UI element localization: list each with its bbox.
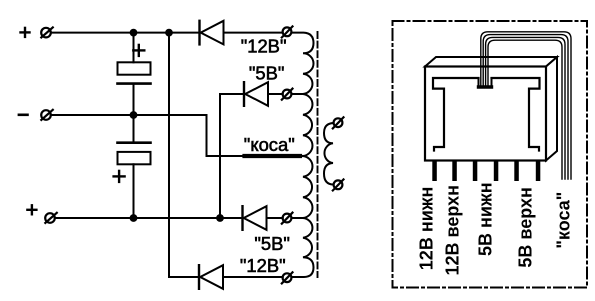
- transformer body front face: [425, 67, 546, 161]
- terminal primary top: [334, 118, 343, 127]
- pin 2: [452, 161, 457, 182]
- label plus bottom-left: [27, 205, 36, 214]
- svg-text:"5В": "5В": [254, 233, 290, 254]
- transformer body right face: [546, 57, 557, 161]
- terminal XS2 (-): [41, 110, 51, 120]
- wire VD2 cathode to 5V bus: [220, 93, 244, 95]
- transformer body top face: [425, 57, 557, 67]
- svg-text:"12В": "12В": [240, 255, 286, 276]
- wire VD2 anode to terminal: [268, 93, 283, 95]
- terminal primary bottom: [334, 180, 343, 189]
- svg-text:5В верхн: 5В верхн: [515, 187, 535, 268]
- terminal "5V" bottom: [283, 214, 292, 223]
- braid wire 4: [488, 40, 562, 179]
- diode VD1 "12V" top: [198, 21, 200, 45]
- wire cap C2 top lead: [133, 115, 135, 143]
- transformer T1 secondary winding: [292, 33, 314, 277]
- junction dot cap2/bottom rail: [130, 214, 138, 222]
- wire bottom rail: [55, 217, 243, 219]
- svg-text:"12В": "12В": [241, 36, 287, 57]
- wire 12V bus to VD4: [169, 276, 199, 278]
- wire top rail: [51, 32, 200, 34]
- diode VD4 "12V" bottom: [198, 265, 200, 289]
- tap wire 5V bottom: [292, 217, 305, 219]
- svg-text:"коса": "коса": [244, 134, 295, 155]
- lead-out slot: [479, 78, 492, 88]
- junction dot cap1/top rail: [130, 29, 138, 37]
- wire minus rail corner down: [206, 115, 208, 156]
- wire 5V bus vertical: [219, 94, 221, 218]
- wire VD3 anode to terminal: [267, 217, 283, 219]
- diode VD2 "5V" top: [243, 82, 245, 106]
- wire VD1 anode to terminal: [224, 32, 283, 34]
- pin 5: [514, 161, 519, 182]
- label minus left: [19, 114, 28, 117]
- wire cap C1 bottom lead: [133, 84, 135, 115]
- svg-text:"коса": "коса": [554, 192, 574, 249]
- junction dot 12V bus/top rail: [165, 29, 173, 37]
- terminal XS3 (+): [45, 213, 55, 223]
- wire minus rail: [51, 114, 207, 116]
- braid wire 3: [486, 37, 565, 179]
- wire kosa horizontal: [207, 155, 305, 157]
- transformer core dashed line: [317, 32, 319, 277]
- svg-text:12В нижн: 12В нижн: [417, 187, 437, 271]
- braid wire 1: [481, 32, 571, 179]
- capacitor C1 body: [118, 62, 151, 74]
- label plus C1: [133, 45, 144, 56]
- capacitor C1 bottom plate: [118, 82, 151, 85]
- tap wire 5V top: [292, 93, 305, 95]
- label plus C2: [114, 171, 125, 182]
- wire VD4 anode to terminal: [223, 276, 283, 278]
- capacitor C2 top plate: [118, 141, 151, 144]
- junction dot 5V bus/bottom rail: [216, 214, 224, 222]
- wire 12V bus vertical: [168, 33, 170, 277]
- pin 1: [432, 161, 437, 182]
- pin 3: [473, 161, 478, 182]
- junction dot cap1/minus rail: [130, 111, 138, 119]
- capacitor C2 body: [118, 152, 151, 164]
- transformer T1 primary winding: [324, 123, 334, 185]
- braid wire 2: [483, 35, 568, 179]
- terminal "12V" top: [283, 27, 292, 36]
- svg-text:12В верхн: 12В верхн: [443, 185, 463, 276]
- bobbin flange left bracket: [433, 78, 479, 151]
- wire cap C1 top lead: [133, 33, 135, 63]
- terminal "5V" top: [283, 90, 292, 99]
- pin 6: [536, 161, 541, 182]
- diode VD3 "5V" bottom: [241, 206, 243, 230]
- terminal "12V" bottom: [283, 273, 292, 282]
- pin 4: [494, 161, 499, 182]
- wire cap C2 bottom lead: [133, 164, 135, 218]
- svg-text:5В нижн: 5В нижн: [476, 182, 496, 256]
- svg-text:"5В": "5В": [249, 62, 285, 83]
- bobbin flange right bracket: [492, 78, 540, 151]
- terminal XS1 (+): [41, 28, 51, 38]
- dash-dot border box: [393, 21, 588, 288]
- wire kosa thick braid segment: [245, 154, 301, 158]
- label plus top-left: [21, 28, 30, 37]
